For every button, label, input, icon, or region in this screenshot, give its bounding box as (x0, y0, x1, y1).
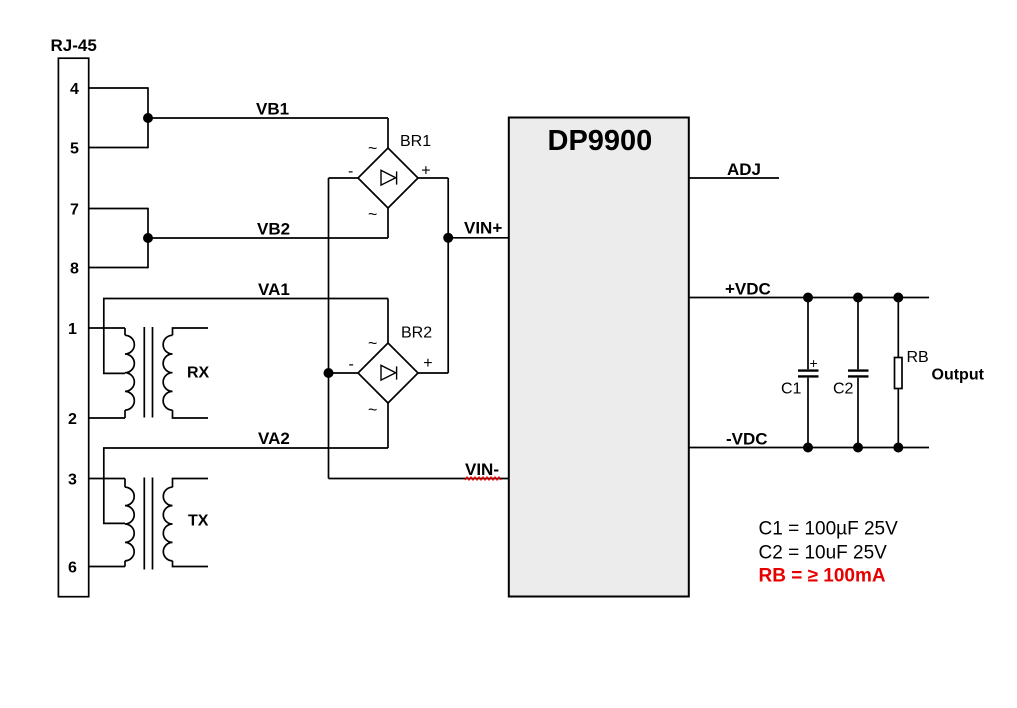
bridge rectifier BR1 (358, 148, 418, 208)
svg-text:C2: C2 (833, 381, 854, 398)
spellcheck squiggle under VIN- (465, 477, 501, 480)
svg-text:5: 5 (70, 141, 79, 158)
svg-text:-VDC: -VDC (726, 430, 768, 449)
wire VB2 (148, 237, 388, 239)
wire VIN+ to DP9900 (448, 237, 509, 239)
junction +VDC C2 (853, 293, 863, 303)
diode inside BR1 (381, 170, 397, 185)
wire pin 8 (89, 267, 148, 269)
wire VIN- (329, 478, 510, 480)
svg-text:1: 1 (68, 321, 77, 338)
junction node VIN+ (443, 233, 453, 243)
svg-text:~: ~ (368, 141, 377, 158)
wire BR1 AC top lead (387, 118, 389, 149)
wire pins 7-8 tie (147, 208, 149, 268)
transformer T1 RX primary lead pin 2 (89, 410, 125, 418)
wire BR1 positive lead (418, 178, 449, 238)
connector J1 RJ-45 body (58, 58, 88, 597)
wire BR2 positive lead (418, 372, 449, 374)
transformer T2 TX secondary winding (163, 487, 172, 561)
junction node VB2 (143, 233, 153, 243)
junction -VDC C1 (803, 443, 813, 453)
wire ADJ (689, 177, 779, 179)
wire BR2 negative lead (329, 372, 359, 374)
wire +VDC (689, 297, 929, 299)
svg-text:VA1: VA1 (258, 280, 290, 299)
diode inside BR2 (381, 365, 397, 380)
svg-text:7: 7 (70, 202, 79, 219)
transformer T1 RX core (144, 327, 152, 418)
transformer T1 RX secondary winding (163, 335, 172, 410)
wire VA2 center-tap drop (104, 448, 125, 523)
svg-text:+: + (423, 355, 432, 372)
wire VA2 (103, 447, 388, 449)
svg-text:RX: RX (187, 365, 210, 382)
svg-text:+: + (810, 355, 818, 371)
transformer T2 TX primary lead pin 6 (89, 561, 125, 567)
transformer T2 TX core (144, 478, 152, 570)
svg-text:C1 = 100µF 25V: C1 = 100µF 25V (759, 519, 899, 540)
wire BR1 negative lead (329, 177, 359, 179)
wire pin 5 (89, 147, 148, 149)
wire BR1 AC bottom lead (387, 208, 389, 239)
junction -VDC RB (893, 443, 903, 453)
IC U1 DP9900 body (509, 118, 689, 597)
svg-text:~: ~ (368, 402, 377, 419)
svg-text:3: 3 (68, 472, 77, 489)
svg-text:Output: Output (932, 367, 985, 384)
junction -VDC C2 (853, 443, 863, 453)
junction node VB1 (143, 113, 153, 123)
capacitor C2 (857, 298, 859, 448)
svg-text:VIN-: VIN- (465, 460, 499, 479)
wire VB1 (148, 117, 388, 119)
transformer T2 TX secondary leads (173, 479, 209, 567)
bridge rectifier BR2 (358, 343, 418, 403)
svg-text:DP9900: DP9900 (548, 125, 653, 157)
svg-text:VIN+: VIN+ (464, 219, 502, 238)
wire VA1 (103, 298, 388, 300)
transformer T1 RX primary winding (125, 335, 134, 410)
wire pins 4-5 tie (147, 87, 149, 148)
wire BR2 AC bottom lead (387, 402, 389, 448)
svg-text:2: 2 (68, 411, 77, 428)
svg-text:+VDC: +VDC (725, 280, 771, 299)
svg-text:8: 8 (70, 261, 79, 278)
svg-text:~: ~ (368, 336, 377, 353)
capacitor C1 (807, 298, 809, 448)
transformer T2 TX primary lead pin 3 (89, 479, 125, 488)
wire VA1 center-tap drop (104, 299, 125, 374)
svg-text:VB1: VB1 (256, 100, 289, 119)
svg-text:C1: C1 (781, 381, 802, 398)
svg-text:4: 4 (70, 81, 79, 98)
wire negative bus (328, 178, 330, 479)
svg-text:+: + (421, 163, 430, 180)
junction +VDC RB (893, 293, 903, 303)
svg-text:-: - (349, 356, 354, 373)
wire pin 7 (89, 208, 148, 210)
resistor RB (897, 298, 899, 448)
wire positive bus to BR2 (447, 238, 449, 373)
svg-text:RJ-45: RJ-45 (51, 36, 97, 55)
transformer T1 RX primary lead pin 1 (89, 328, 125, 335)
svg-text:TX: TX (188, 513, 209, 530)
svg-text:RB = ≥ 100mA: RB = ≥ 100mA (759, 566, 886, 587)
wire -VDC (689, 447, 929, 449)
svg-text:6: 6 (68, 560, 77, 577)
svg-text:ADJ: ADJ (727, 160, 761, 179)
transformer T1 RX secondary leads (173, 328, 209, 418)
svg-text:C2 = 10uF 25V: C2 = 10uF 25V (759, 543, 888, 564)
svg-text:BR2: BR2 (401, 325, 432, 342)
wire BR2 AC top lead (387, 299, 389, 345)
svg-text:RB: RB (907, 349, 929, 366)
svg-text:VA2: VA2 (258, 429, 290, 448)
svg-text:VB2: VB2 (257, 220, 290, 239)
svg-text:BR1: BR1 (400, 133, 431, 150)
junction +VDC C1 (803, 293, 813, 303)
svg-text:~: ~ (368, 207, 377, 224)
transformer T2 TX primary winding (125, 487, 134, 561)
wire pin 4 (89, 87, 148, 89)
junction BR2 negative on bus (324, 368, 334, 378)
